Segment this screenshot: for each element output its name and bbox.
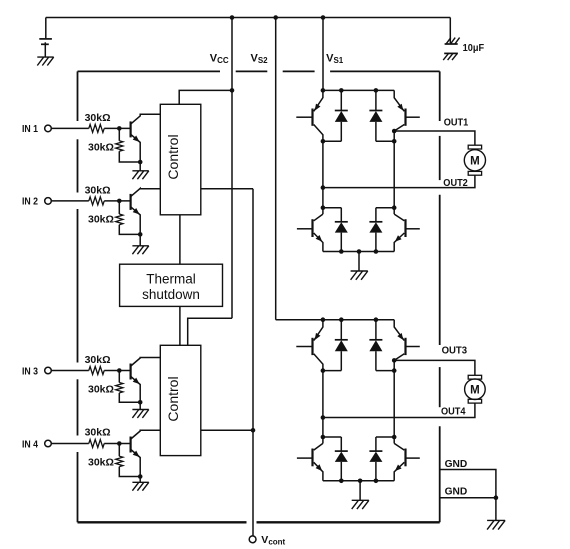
IC package outline: top edge (gaps at Vcc, Vs2, Vs1) (78, 70, 440, 72)
block: Control 1 (160, 104, 201, 215)
svg-text:Control: Control (165, 376, 181, 421)
svg-text:30kΩ: 30kΩ (85, 354, 111, 366)
resistor 30kΩ series (IN 2) (89, 197, 104, 205)
transistor Q (IN 4 input) (131, 430, 161, 482)
node: bridge 1 right lower jog (392, 205, 397, 210)
resistor 30kΩ series (IN 3) (89, 367, 104, 375)
node: bridge 1 bottom diode A (339, 249, 344, 254)
diode bridge 2 lower-left (323, 437, 348, 481)
ground (IN 1 stage) (132, 171, 148, 179)
svg-text:IN 2: IN 2 (22, 197, 38, 208)
label 30kΩ series (IN 4) (85, 426, 111, 438)
node: bridge 2 left mid (321, 368, 326, 373)
transistor bridge 1 lower-right (sinking) (394, 214, 420, 251)
terminal IN 1 (22, 124, 51, 135)
transistor bridge 1 lower-left (sinking) (297, 214, 323, 251)
node: bridge 1 left lower jog (321, 205, 326, 210)
block: Control 2 (160, 345, 201, 455)
terminal IN 2 (22, 197, 51, 208)
ground for C2 (443, 53, 458, 60)
svg-text:Thermal: Thermal (146, 271, 196, 286)
node: bus bridge 2 diode A (339, 317, 344, 322)
svg-text:IN 4: IN 4 (22, 439, 38, 450)
label OUT2 (443, 178, 468, 189)
node: bridge 2 right lower jog (392, 435, 397, 440)
svg-text:shutdown: shutdown (142, 287, 200, 302)
node: bus bridge 2 diode B (374, 317, 379, 322)
diode bridge 1 upper-right (369, 90, 394, 141)
IC package outline: bottom edge (gap at Vcont) (78, 521, 440, 523)
label OUT1 (444, 118, 469, 129)
svg-text:GND: GND (445, 459, 468, 470)
transistor Q (IN 2 input) (131, 188, 161, 245)
node: Vcc junction on top rail (230, 15, 235, 20)
IC package outline: left edge (gaps at IN1-IN4) (77, 71, 79, 522)
ground (bridge 2) (352, 481, 369, 509)
label 30kΩ pulldown (IN 2) (88, 214, 114, 226)
ground (IN 3 stage) (132, 410, 148, 418)
wire: bridge 1 left rail (322, 141, 324, 214)
svg-text:M: M (470, 156, 480, 168)
transistor bridge 2 lower-right (sinking) (394, 443, 420, 480)
capacitor C1 (supply decoupling, left) (39, 18, 52, 58)
svg-text:30kΩ: 30kΩ (85, 426, 111, 438)
svg-text:30kΩ: 30kΩ (88, 214, 114, 226)
wire: Vcc branch to Control 1 top (179, 90, 232, 104)
node: bridge 1 bottom diode B (374, 249, 379, 254)
label 30kΩ pulldown (IN 4) (88, 456, 114, 468)
node: bridge 2 bottom diode B (374, 479, 379, 484)
node: bus bridge 1 diode A (339, 88, 344, 93)
diode bridge 2 upper-left (323, 320, 348, 371)
node: bridge 2 left out tap (321, 415, 326, 420)
node: Control 2 output junction (251, 428, 256, 433)
label 30kΩ series (IN 3) (85, 354, 111, 366)
diode bridge 1 lower-right (369, 208, 394, 252)
wire: OUT2 (323, 175, 475, 187)
resistor 30kΩ pulldown (IN 4) (116, 444, 141, 477)
wire: bridge 1 supply bus (323, 89, 394, 91)
wire: IN 1 to base (104, 127, 130, 129)
svg-text:Control: Control (165, 134, 181, 179)
motor M2 (OUT3/OUT4) (465, 375, 486, 403)
node: bus bridge 1 diode B (374, 88, 379, 93)
transistor bridge 2 lower-left (sinking) (297, 443, 323, 480)
wire: bridge 1 right rail (393, 131, 395, 214)
wire: Vcc jog to Control 2 top (188, 318, 232, 345)
wire: IN 3 input (51, 370, 89, 372)
node: bridge 2 right out (392, 358, 397, 363)
IC package outline: right edge (gaps at OUT1-OUT4) (439, 71, 441, 522)
wire: GND pin 2 (440, 497, 496, 499)
node: IN 4 emitter junction (138, 474, 143, 479)
wire: OUT1 (394, 131, 475, 145)
svg-text:30kΩ: 30kΩ (85, 112, 111, 124)
ground (GND pins) (487, 498, 505, 530)
wire: Vcont line (252, 189, 254, 536)
wire: top supply rail (46, 17, 451, 19)
wire: bridge 2 left rail (322, 371, 324, 444)
label 30kΩ pulldown (IN 3) (88, 384, 114, 396)
node: IN 3 emitter junction (138, 400, 143, 405)
resistor 30kΩ pulldown (IN 3) (116, 371, 141, 403)
block: Thermal shutdown (120, 264, 223, 306)
ground (IN 4 stage) (132, 482, 148, 490)
svg-text:30kΩ: 30kΩ (85, 184, 111, 196)
label 10uF (463, 42, 485, 54)
node: bridge 1 right out (392, 129, 397, 134)
svg-text:GND: GND (445, 486, 468, 497)
node: bridge 2 bottom center (358, 479, 363, 484)
wire: Vcc feed (231, 18, 233, 319)
terminal Vcont (249, 536, 256, 543)
wire: IN 4 input (51, 443, 89, 445)
node: IN 1 base junction (117, 126, 122, 131)
wire: bridge 2 emitter bus (323, 480, 394, 482)
terminal IN 4 (22, 439, 51, 450)
svg-text:M: M (470, 385, 480, 397)
diode bridge 1 upper-left (323, 90, 348, 141)
label 30kΩ series (IN 1) (85, 112, 111, 124)
motor M1 (OUT1/OUT2) (464, 145, 485, 175)
wire: IN 3 to base (104, 370, 130, 372)
svg-text:OUT2: OUT2 (443, 178, 468, 189)
node: IN 2 emitter junction (138, 232, 143, 237)
label Vs2 (251, 53, 269, 66)
terminal IN 3 (22, 366, 51, 377)
node: Vcc to Control 1 (230, 88, 235, 93)
label 30kΩ pulldown (IN 1) (88, 141, 114, 153)
svg-text:30kΩ: 30kΩ (88, 456, 114, 468)
svg-text:IN 3: IN 3 (22, 366, 38, 377)
label OUT4 (441, 407, 466, 418)
svg-text:OUT4: OUT4 (441, 407, 466, 418)
node: Vs2 junction on top rail (273, 15, 278, 20)
ground for C1 (37, 57, 53, 65)
wire: OUT4 (323, 403, 475, 417)
wire: Vs2 feed (275, 18, 277, 320)
node: bridge 1 right mid (392, 139, 397, 144)
node: bridge 1 left mid (321, 139, 326, 144)
svg-text:30kΩ: 30kΩ (88, 384, 114, 396)
resistor 30kΩ pulldown (IN 1) (116, 128, 141, 162)
transistor bridge 2 upper-left (sourcing) (296, 320, 323, 371)
wire: bridge 1 emitter bus (323, 251, 394, 253)
node: bridge 1 bottom center (357, 249, 362, 254)
node: Vs1 to bus (321, 88, 326, 93)
node: IN 1 emitter junction (138, 160, 143, 165)
node: IN 2 base junction (117, 199, 122, 204)
wire: Control 2 output to Vcont line (201, 429, 253, 431)
node: Vs1 junction on top rail (321, 15, 326, 20)
wire: IN 1 input (51, 127, 89, 129)
wire: IN 2 to base (104, 200, 130, 202)
wire: Vs1 feed (322, 18, 324, 91)
node: IN 3 base junction (117, 368, 122, 373)
wire: Thermal shutdown to Control 2 top (179, 306, 181, 345)
transistor Q (IN 3 input) (131, 358, 161, 410)
node: bus left rail junction (321, 317, 326, 322)
wire: bridge 2 supply bus (276, 319, 395, 321)
wire: IN 4 to base (104, 443, 130, 445)
wire: OUT3 (394, 360, 475, 375)
transistor Q (IN 1 input) (131, 114, 161, 171)
ground (IN 2 stage) (132, 246, 148, 254)
svg-text:10μF: 10μF (463, 42, 485, 54)
transistor bridge 1 upper-right (sourcing) (394, 90, 420, 131)
wire: bridge 2 right rail (393, 360, 395, 443)
node: bridge 1 left out tap (321, 185, 326, 190)
label OUT3 (442, 345, 468, 356)
label Vs1 (326, 53, 344, 66)
diode bridge 2 upper-right (369, 320, 394, 371)
svg-text:30kΩ: 30kΩ (88, 141, 114, 153)
resistor 30kΩ pulldown (IN 2) (116, 201, 141, 235)
transistor bridge 2 upper-right (sourcing) (394, 320, 420, 361)
label GND 1 (445, 459, 468, 470)
diode bridge 2 lower-right (369, 437, 394, 481)
svg-text:OUT3: OUT3 (442, 345, 468, 356)
capacitor C2 10uF (right) (445, 18, 460, 45)
wire: GND pin 1 (440, 470, 496, 498)
node: bridge 2 right mid (392, 368, 397, 373)
label Vcc (210, 53, 229, 66)
label 30kΩ series (IN 2) (85, 184, 111, 196)
svg-text:IN 1: IN 1 (22, 124, 38, 135)
node: IN 4 base junction (117, 441, 122, 446)
node: bridge 2 left lower jog (321, 435, 326, 440)
diode bridge 1 lower-left (323, 208, 348, 252)
node: bridge 2 bottom diode A (339, 479, 344, 484)
svg-text:OUT1: OUT1 (444, 118, 469, 129)
ground (bridge 1) (351, 252, 368, 280)
wire: IN 2 input (51, 200, 89, 202)
label Vcont (261, 534, 285, 547)
wire: Control 1 bottom to Thermal shutdown (179, 215, 181, 264)
label GND 2 (445, 486, 468, 497)
node: GND junction (494, 495, 499, 500)
wire: Control 1 output to Vcont line (201, 188, 253, 190)
transistor bridge 1 upper-left (sourcing) (296, 90, 323, 141)
resistor 30kΩ series (IN 1) (89, 124, 104, 132)
resistor 30kΩ series (IN 4) (89, 440, 104, 448)
